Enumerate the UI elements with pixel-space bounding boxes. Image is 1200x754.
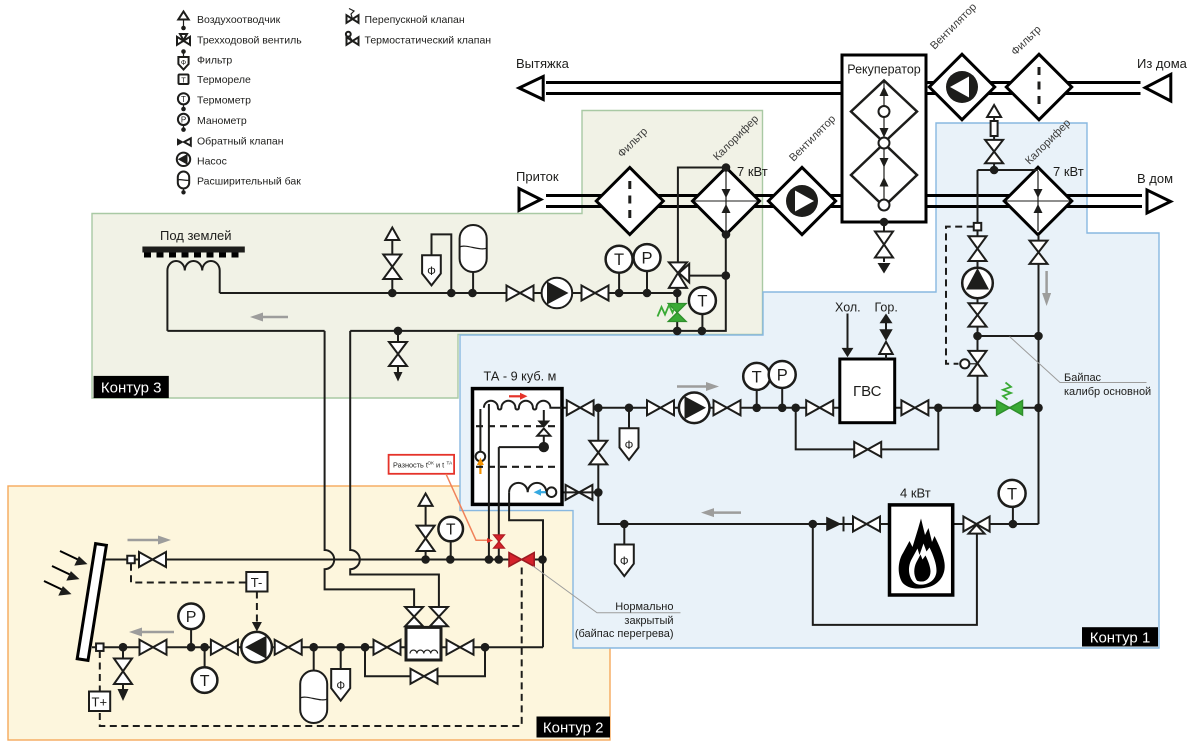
svg-text:P: P xyxy=(641,250,652,268)
svg-text:T: T xyxy=(614,251,624,269)
red flow arrow in tank xyxy=(509,393,528,400)
red box Разность xyxy=(389,455,455,474)
svg-text:Хол.: Хол. xyxy=(835,301,861,315)
legend icon: трехходовой вентиль xyxy=(177,34,190,45)
wire: vertical from air-vent node down across duct xyxy=(977,170,979,227)
node bypass left xyxy=(791,404,800,413)
supply duct left arrow xyxy=(519,189,541,211)
node right on bypass link xyxy=(1034,332,1043,341)
bypass valve ГВС xyxy=(854,442,881,457)
wire: tank bottom to valve xyxy=(556,491,598,493)
node under air vent stack xyxy=(990,166,999,175)
exchanger top valves xyxy=(405,607,448,626)
thermometer T (К3 right) xyxy=(689,287,716,335)
label Нормально закрытый xyxy=(575,601,674,640)
inner junction node xyxy=(539,442,549,452)
node bypass НЕ left xyxy=(361,643,370,652)
filter F2 on exhaust duct xyxy=(1006,54,1071,119)
node below three-way valve xyxy=(673,289,682,298)
sensor square on collector outlet xyxy=(127,556,135,564)
legend icon: насос xyxy=(177,153,190,166)
drain valve on return line xyxy=(389,327,407,382)
node left on bypass link xyxy=(973,332,982,341)
svg-text:Манометр: Манометр xyxy=(197,115,247,127)
svg-text:Трехходовой вентиль: Трехходовой вентиль xyxy=(197,35,302,47)
svg-text:Гор.: Гор. xyxy=(875,301,898,315)
ground bar symbol xyxy=(142,247,244,258)
legend icon: фильтр xyxy=(178,49,188,69)
boiler box 4 кВт xyxy=(890,505,953,595)
pump К2 (left) xyxy=(241,632,272,663)
pump ГВС xyxy=(679,393,710,424)
dirt filter Ф on boiler line xyxy=(615,520,634,576)
wire: top coil riser down to К2 supply xyxy=(488,404,490,560)
wire: exchanger bypass xyxy=(365,647,485,676)
wire: ГВС bypass xyxy=(796,408,939,450)
air vent + valve on supply line xyxy=(383,228,401,298)
valve under heater K2 xyxy=(1030,241,1048,264)
region Контур 3 background xyxy=(92,111,763,399)
svg-text:Контур 2: Контур 2 xyxy=(543,720,604,737)
air vent stack between fan and filter xyxy=(985,105,1003,170)
thermostatic valve with handle xyxy=(960,351,986,376)
wire: lower boiler line xyxy=(598,492,1038,524)
svg-text:В дом: В дом xyxy=(1137,171,1173,186)
svg-text:Контур 3: Контур 3 xyxy=(101,380,162,397)
filter F1 on supply duct xyxy=(596,168,663,235)
wire: return line right portion xyxy=(350,233,726,331)
svg-text:Термореле: Термореле xyxy=(197,74,251,86)
node at calorifer K1 top xyxy=(722,163,731,172)
ground loop coil xyxy=(167,261,219,331)
svg-text:Обратный клапан: Обратный клапан xyxy=(197,136,284,148)
sun arrows xyxy=(44,551,88,596)
wire: bottom coil exit down and across xyxy=(509,492,543,647)
valve on collector outlet xyxy=(139,552,166,567)
svg-text:T-: T- xyxy=(251,575,263,590)
exhaust duct left arrow xyxy=(519,77,543,100)
valve above pump К1 xyxy=(969,230,987,261)
exhaust duct right arrow xyxy=(1145,74,1171,101)
legend icon: манометр xyxy=(178,114,189,132)
svg-text:T: T xyxy=(200,673,210,690)
legend icon: расширительный бак xyxy=(178,172,189,195)
svg-text:Ф: Ф xyxy=(625,440,634,452)
svg-text:ТА - 9 куб. м: ТА - 9 куб. м xyxy=(484,370,557,384)
shutoff valve К3 left of pump xyxy=(507,286,534,301)
dashed: square to Т+ box xyxy=(99,651,101,692)
wire: ГВС line xyxy=(562,407,1039,409)
grey flow arrow (down) xyxy=(1042,271,1051,306)
sensor square on collector return xyxy=(96,643,104,651)
recuperator box xyxy=(842,55,926,222)
grey callout НЗ xyxy=(533,566,681,613)
node right of red valve xyxy=(538,555,547,564)
svg-text:(байпас перегрева): (байпас перегрева) xyxy=(575,628,674,640)
Т- sensor box xyxy=(246,572,267,592)
svg-text:ОК: ОК xyxy=(428,461,435,466)
svg-text:T: T xyxy=(181,95,186,104)
heat exchanger box xyxy=(406,627,441,660)
red thermostatic valve (Разность) xyxy=(494,535,505,548)
manometer P (ГВС) xyxy=(769,361,796,412)
blue arrow (left) xyxy=(534,489,548,496)
svg-text:T: T xyxy=(697,293,707,311)
thermostatic green valve К3 xyxy=(658,303,687,322)
node at calorifer K1 bottom xyxy=(722,230,731,239)
wire: inner pipe riser down through red valve xyxy=(498,447,500,559)
grey flow arrow (right, К2 top) xyxy=(128,536,172,545)
label Контур 2 xyxy=(537,717,611,738)
wire: К2 return line xyxy=(92,646,406,648)
svg-text:Фильтр: Фильтр xyxy=(197,55,232,67)
label Гор. + hot outlet xyxy=(875,301,898,360)
tank box xyxy=(473,389,563,505)
svg-text:4 кВт: 4 кВт xyxy=(900,486,931,501)
grey flow arrow (left, К2 return) xyxy=(129,628,174,637)
thermometer T (К2) xyxy=(192,643,218,693)
svg-text:Термостатический клапан: Термостатический клапан xyxy=(365,35,492,47)
shutoff valve К3 right of pump xyxy=(582,286,609,301)
valve below pump К1 xyxy=(969,303,987,336)
dirt filter Ф на ГВС xyxy=(620,404,639,460)
svg-text:Ф: Ф xyxy=(427,266,436,278)
svg-text:P: P xyxy=(186,609,197,626)
legend icon: термореле xyxy=(179,75,189,85)
tank outlet valve top xyxy=(567,400,594,415)
expansion tank К2 xyxy=(300,643,327,723)
bottom coil outlet circle xyxy=(547,487,557,497)
legend icon: термостатический клапан xyxy=(346,32,359,45)
svg-text:ГВС: ГВС xyxy=(853,383,882,400)
valve right of ГВС box xyxy=(901,400,928,415)
sensor square on riser xyxy=(974,223,982,231)
heater (калорифер) K1 on supply duct xyxy=(693,168,760,235)
svg-text:Термометр: Термометр xyxy=(197,95,251,107)
svg-text:Воздухоотводчик: Воздухоотводчик xyxy=(197,14,281,26)
check valve inside tank xyxy=(537,410,550,447)
bypass valve К2 xyxy=(411,669,438,684)
svg-text:T: T xyxy=(446,522,456,539)
dashed control line to pump riser xyxy=(946,227,974,364)
dashed: Т- to pump with arrow xyxy=(252,592,262,632)
label Контур 1 xyxy=(1082,627,1158,646)
legend icon: обратный клапан xyxy=(177,138,191,145)
svg-text:T: T xyxy=(181,76,186,85)
orange arrow up xyxy=(477,458,484,475)
svg-text:T: T xyxy=(752,368,762,386)
svg-text:Под землей: Под землей xyxy=(160,228,232,243)
fan (вентилятор) V1 on supply duct xyxy=(768,167,835,234)
svg-text:7 кВт: 7 кВт xyxy=(737,164,768,179)
svg-text:7 кВт: 7 кВт xyxy=(1053,164,1084,179)
wire: К2 supply line with hops xyxy=(105,559,543,561)
svg-text:Вытяжка: Вытяжка xyxy=(516,56,570,71)
valve before pump ГВС xyxy=(647,400,674,415)
recuperator lower diamond xyxy=(851,143,917,207)
exhaust duct (Вытяжка) xyxy=(546,83,1141,94)
node at tank bottom outlet xyxy=(594,488,603,497)
node right of ГВС xyxy=(934,404,943,413)
three-way valve К3 xyxy=(669,262,689,288)
ГВС box xyxy=(840,359,895,423)
pump К1 (up) xyxy=(962,261,993,303)
callout line Байпас xyxy=(1010,337,1147,383)
wire: horizontal link to heater K2 top xyxy=(978,169,1038,171)
pump К3 xyxy=(542,278,573,309)
node at 485 xyxy=(481,643,490,652)
green valve (байпас калибр) xyxy=(997,383,1023,416)
recuperator condensate drain xyxy=(875,218,893,274)
valve before boiler xyxy=(853,517,880,532)
thermometer T (boiler) xyxy=(999,480,1026,528)
node at riser x ГВС line xyxy=(1034,404,1043,413)
grey flow arrow (left, boiler line) xyxy=(701,508,741,517)
solar collector xyxy=(77,544,106,661)
wire: К3 supply line xyxy=(220,292,678,294)
thermometer T (К3) xyxy=(606,246,633,298)
legend icon: воздухоотводчик xyxy=(178,12,188,31)
manometer P (К3) xyxy=(634,244,661,297)
svg-text:Контур 1: Контур 1 xyxy=(1090,629,1151,646)
dashed: square to Т- sensor xyxy=(131,564,246,583)
wire: main riser from heater K2 down to boiler line xyxy=(1038,235,1040,524)
svg-text:Перепускной клапан: Перепускной клапан xyxy=(365,14,465,26)
three-way valve after boiler xyxy=(963,517,989,534)
recuperator node circles xyxy=(879,106,890,211)
valve К2 return 1 xyxy=(140,640,167,655)
wire: riser 2 down to heat exchanger valve xyxy=(350,331,439,608)
vertical valve between ГВС line and boiler line xyxy=(589,408,607,493)
wire: riser continues from pump node down to ГВС line xyxy=(977,336,979,408)
drain valve on return xyxy=(114,643,132,701)
label Байпас калибр основной xyxy=(1064,372,1151,398)
svg-text:P: P xyxy=(181,116,186,125)
svg-text:Рекуператор: Рекуператор xyxy=(847,63,920,77)
node on return riser xyxy=(722,271,731,280)
thermometer T (ГВС) xyxy=(743,363,770,412)
dashed control line from Т+ to red valve xyxy=(100,568,522,727)
air vent + valve stack on supply xyxy=(417,494,435,564)
valve К2 before pump xyxy=(211,640,238,655)
wire: bypass link xyxy=(978,335,1039,337)
supply duct (Приток / В дом) xyxy=(546,196,1142,207)
manometer P (К2) xyxy=(178,604,204,652)
wire: three-way valve down to return xyxy=(676,288,678,331)
node boiler bypass xyxy=(809,520,818,529)
expansion tank К3 xyxy=(460,225,487,297)
orange callout arrow xyxy=(446,474,493,543)
valve after pump ГВС xyxy=(714,400,741,415)
svg-text:P: P xyxy=(777,367,788,385)
thermometer T (К2 supply) xyxy=(438,517,463,564)
node on return under green valve xyxy=(673,327,682,336)
nodes on supply line (tank risers) xyxy=(485,555,494,564)
svg-text:Нормально: Нормально xyxy=(615,601,673,613)
wire: 3-way valve side port xyxy=(689,275,726,277)
svg-text:Насос: Насос xyxy=(197,156,227,168)
grey flow arrow (left) xyxy=(250,313,288,322)
svg-text:Ф: Ф xyxy=(181,60,186,67)
grey flow arrow (right) xyxy=(677,382,719,391)
dirt filter Ф (К2) xyxy=(331,643,350,701)
supply duct right arrow xyxy=(1147,190,1171,213)
legend icon: перепускной клапан xyxy=(347,9,359,23)
top coil xyxy=(480,401,562,452)
region Контур 2 background xyxy=(8,486,610,740)
wire: coil left down to return line xyxy=(167,330,324,332)
label Контур 3 xyxy=(94,376,169,398)
fan V2 on exhaust duct xyxy=(929,54,994,119)
svg-text:калибр основной: калибр основной xyxy=(1064,386,1151,398)
temperature sensor circle in tank xyxy=(476,452,486,462)
tank level dashed lines xyxy=(476,426,559,467)
svg-text:Байпас: Байпас xyxy=(1064,372,1102,384)
svg-text:Ф: Ф xyxy=(336,681,345,693)
label Хол. + cold inlet arrow xyxy=(835,301,861,358)
region Контур 1 background xyxy=(460,123,1159,648)
check valve boiler xyxy=(826,517,843,532)
node at 598 xyxy=(594,404,603,413)
bottom coil xyxy=(509,483,546,492)
svg-text:Приток: Приток xyxy=(516,169,559,184)
valve К2 after pump xyxy=(275,640,302,655)
svg-text:закрытый: закрытый xyxy=(624,615,673,627)
legend icon: термометр xyxy=(178,93,189,111)
node under pump riser xyxy=(973,404,982,413)
dirt filter Ф on trap xyxy=(422,234,456,297)
wire: riser 1 down to heat exchanger valve xyxy=(325,331,415,608)
valve left of exchanger xyxy=(374,640,401,655)
svg-text:Ф: Ф xyxy=(620,556,629,568)
svg-text:Разность t: Разность t xyxy=(393,461,428,470)
heater (калорифер) K2 on house-supply duct xyxy=(1004,167,1072,235)
wire: inner junction to left riser xyxy=(499,446,544,448)
svg-text:ТА: ТА xyxy=(447,461,454,466)
red bypass valve (Нормально закрытый) xyxy=(509,553,534,567)
wire: boiler bypass loop xyxy=(813,524,977,625)
svg-text:T+: T+ xyxy=(92,695,108,710)
svg-text:Расширительный бак: Расширительный бак xyxy=(197,176,301,188)
Т+ sensor box xyxy=(89,692,110,712)
svg-text:и t: и t xyxy=(436,461,444,470)
wire: calorifer K1 top to 3-way valve xyxy=(678,168,726,264)
valve left of ГВС box xyxy=(806,400,833,415)
recuperator upper diamond xyxy=(851,81,917,143)
svg-text:T: T xyxy=(1007,485,1017,503)
valve right of exchanger xyxy=(447,640,474,655)
tank bottom outlet valve xyxy=(566,485,593,500)
svg-text:Из дома: Из дома xyxy=(1137,56,1188,71)
